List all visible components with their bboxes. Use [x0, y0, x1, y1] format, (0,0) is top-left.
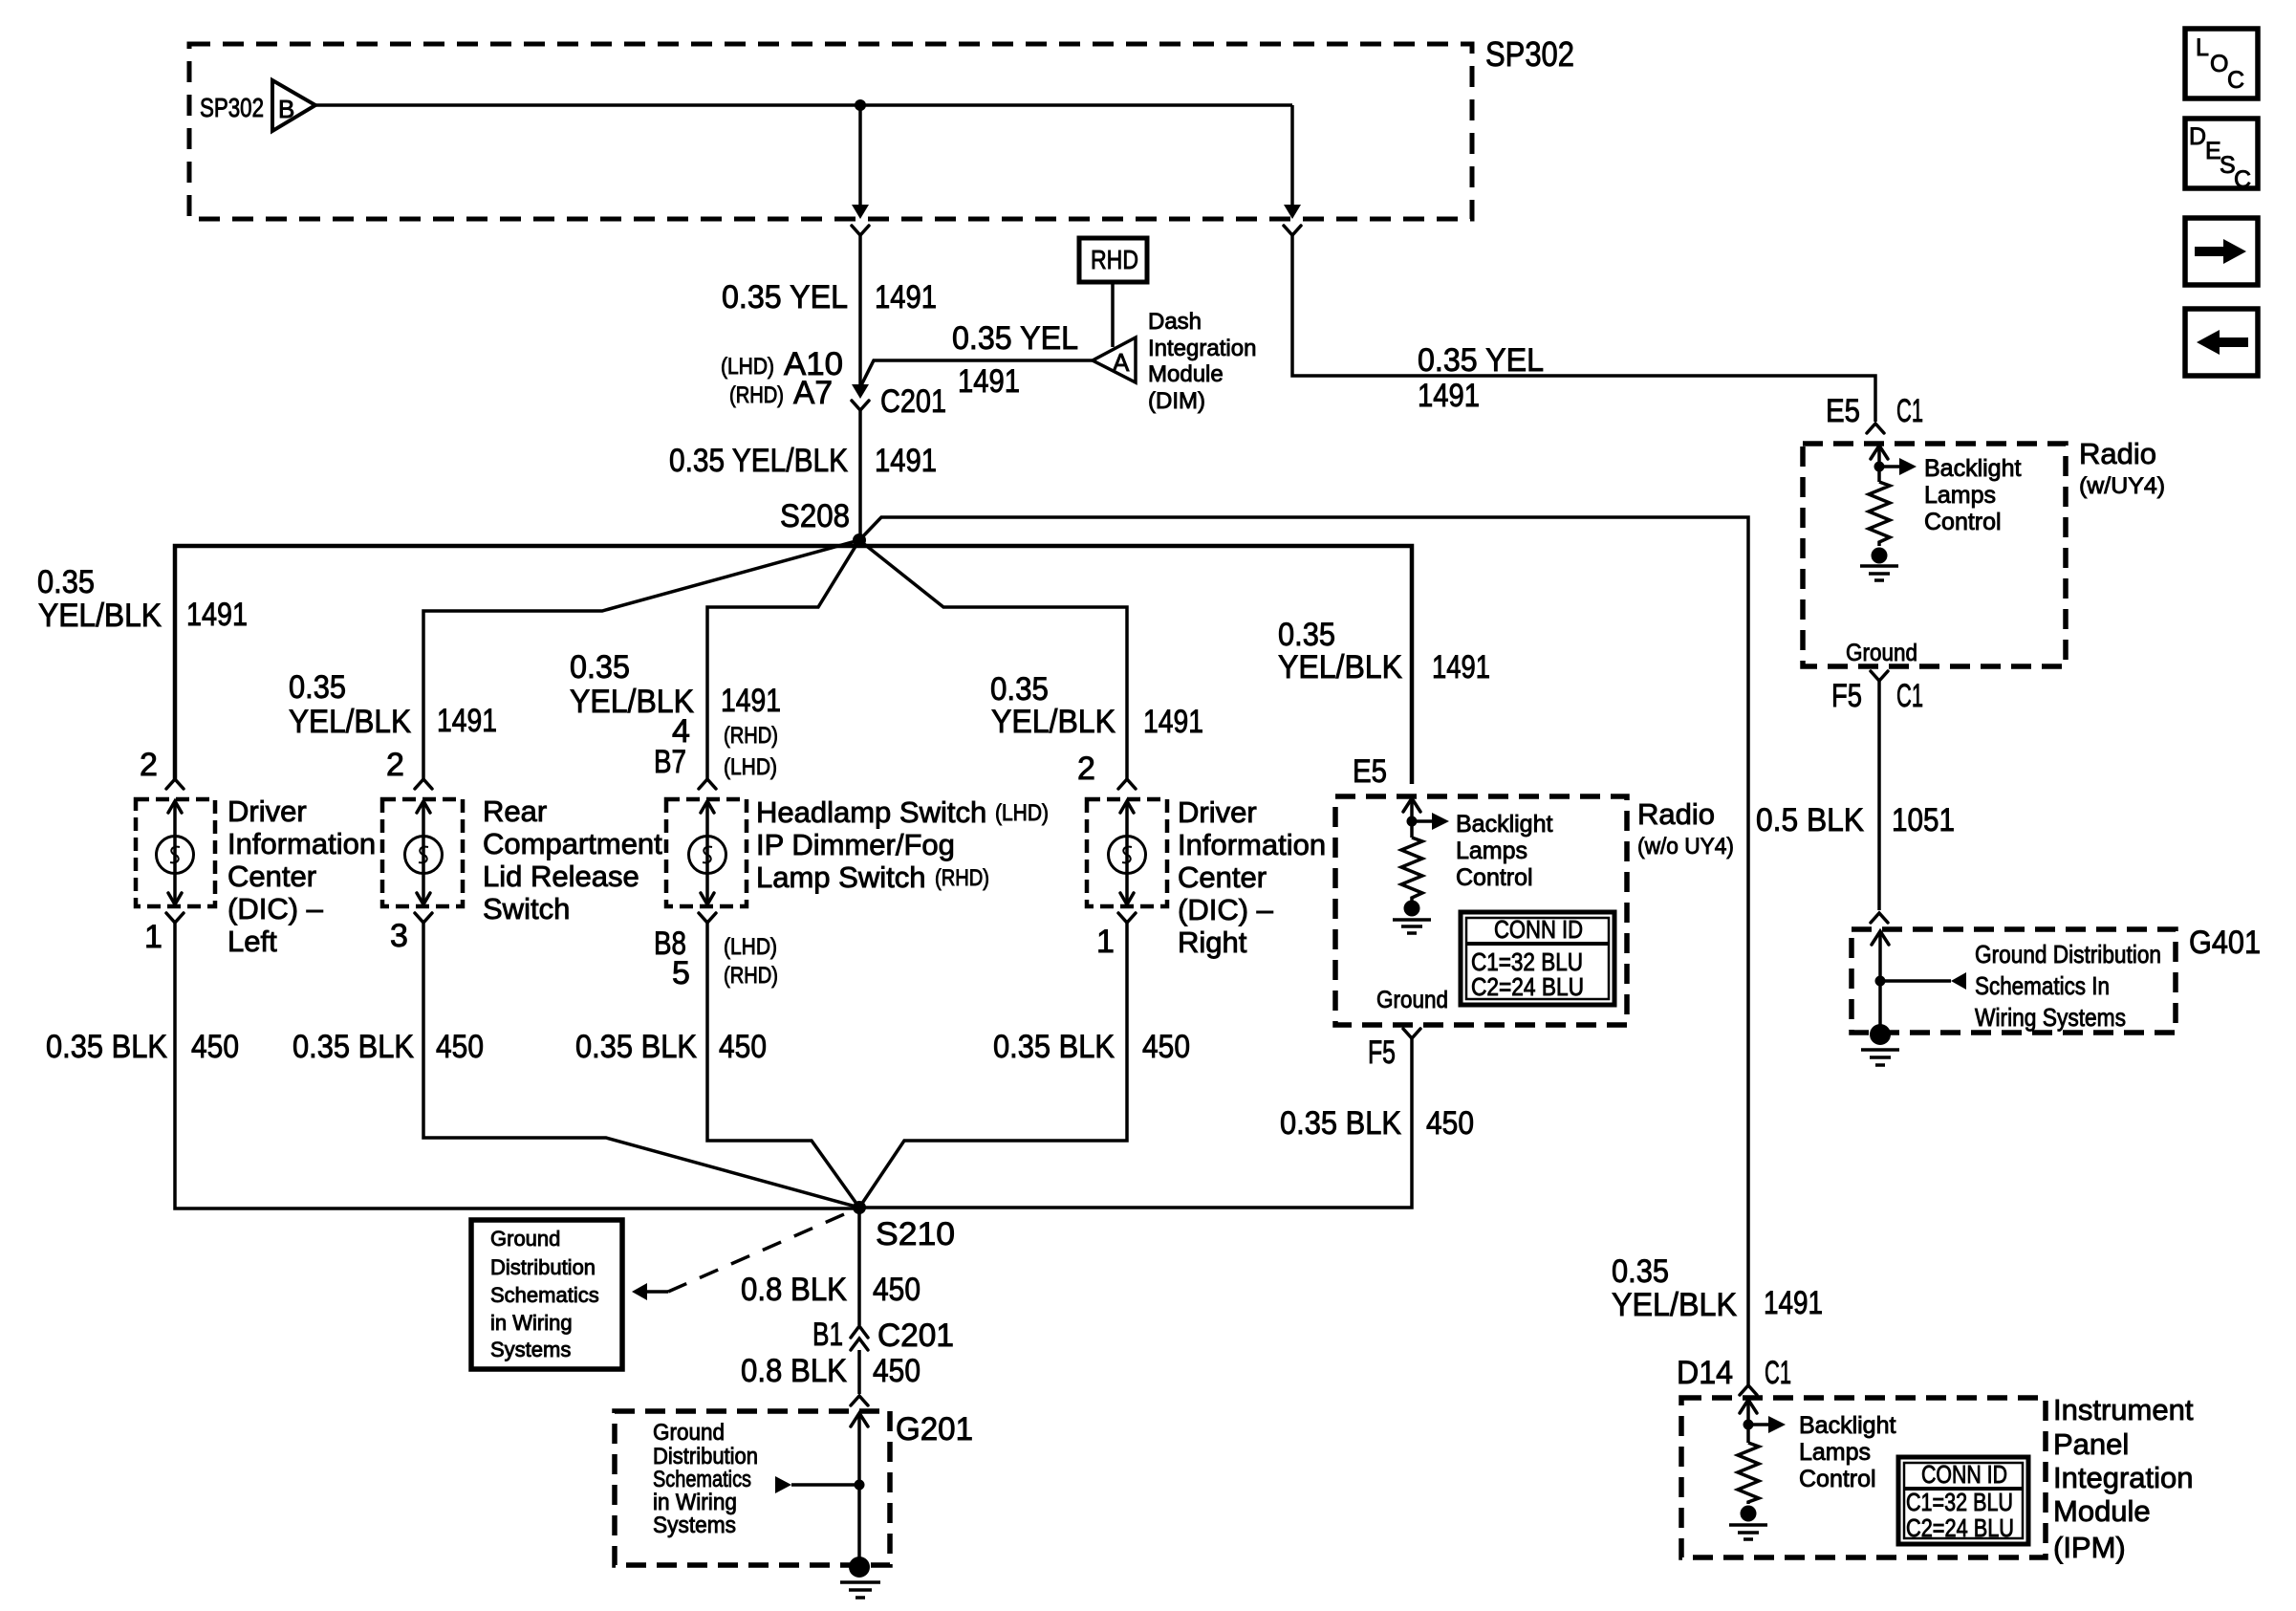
wire C201 to splice S208 [858, 410, 862, 538]
splice S208 node [853, 533, 866, 547]
wire S208 up-right diagonal to IPM feed [859, 517, 1748, 1385]
connector chevron at IPM D14 [1740, 1385, 1757, 1395]
connector C201 double chevron [851, 1326, 868, 1350]
component name Headlamp Switch / IP Dimmer/Fog Lamp Switch [756, 795, 1049, 894]
CONN ID header separator [1904, 1487, 2023, 1491]
connector chevron pin 1 [1118, 913, 1136, 923]
svg-text:(DIM): (DIM) [1148, 388, 1205, 414]
svg-text:450: 450 [873, 1272, 921, 1308]
Headlamp switch dashed box [666, 799, 747, 906]
splice pack SP302 dashed box [189, 44, 1472, 219]
label LOC (diagonal letters) [2196, 34, 2244, 94]
internal arrowhead to Backlight Lamps Control [1432, 813, 1449, 830]
svg-text:(RHD): (RHD) [724, 963, 778, 989]
left-arrow legend box [2185, 309, 2258, 376]
internal ground ball [1404, 901, 1420, 917]
up arrowhead [1740, 1400, 1757, 1413]
internal branch wire from reference arrow [791, 1483, 859, 1487]
internal wire with up arrow [1877, 446, 1881, 482]
svg-text:0.5 BLK: 0.5 BLK [1756, 802, 1864, 838]
G201 ground ball [849, 1557, 870, 1578]
wire S210 down to C201 [857, 1208, 861, 1325]
reference arrowhead (points left) [632, 1283, 647, 1300]
reference arrowhead (points left) [1951, 972, 1966, 990]
svg-text:(w/UY4): (w/UY4) [2079, 473, 2165, 499]
svg-text:G401: G401 [2189, 925, 2261, 961]
dashed reference line to S210 [668, 1208, 859, 1292]
svg-text:Lamps: Lamps [1924, 482, 1996, 509]
wire S208 horizontal left to DIC-Left [175, 546, 859, 779]
svg-text:Ground: Ground [490, 1227, 560, 1251]
connector chevron pin B7 [699, 779, 716, 789]
connector chevron at Radio w/o UY4 F5 [1403, 1029, 1420, 1038]
DIC-Right dashed box [1087, 799, 1167, 906]
wire main vertical from SP302 down to box edge [858, 105, 862, 207]
wire S208 to Rear Compartment Lid Release Switch [423, 540, 859, 779]
svg-text:0.35: 0.35 [1612, 1253, 1669, 1290]
svg-text:0.35 BLK: 0.35 BLK [292, 1029, 414, 1065]
svg-text:1491: 1491 [186, 597, 248, 633]
connector chevron pin 2 [166, 779, 184, 789]
CONN ID table box [1898, 1457, 2028, 1544]
right-arrow legend box [2185, 218, 2258, 285]
svg-text:0.35: 0.35 [1278, 617, 1335, 653]
svg-text:0.8 BLK: 0.8 BLK [741, 1353, 847, 1389]
internal junction node [1407, 816, 1418, 827]
svg-text:0.35 YEL: 0.35 YEL [1418, 342, 1544, 379]
svg-text:Systems: Systems [490, 1338, 571, 1361]
G401 dashed box [1852, 929, 2176, 1033]
svg-text:Ground: Ground [1376, 987, 1448, 1013]
svg-text:Systems: Systems [653, 1513, 736, 1538]
svg-text:Information: Information [227, 827, 376, 860]
component name Dash Integration Module (DIM) [1148, 309, 1256, 414]
svg-text:Module: Module [2053, 1494, 2151, 1528]
svg-text:C201: C201 [880, 383, 946, 420]
svg-text:1491: 1491 [875, 443, 937, 479]
svg-text:Driver: Driver [227, 795, 307, 828]
internal wire [422, 801, 425, 904]
svg-text:(DIC) –: (DIC) – [227, 892, 324, 925]
internal junction node [855, 1480, 865, 1491]
svg-text:IP Dimmer/Fog: IP Dimmer/Fog [756, 828, 955, 861]
wire DIC-Left pin1 to S210 [175, 923, 859, 1208]
lamp filament squiggle [419, 847, 428, 863]
internal wire with up arrow [857, 1413, 861, 1562]
svg-text:2: 2 [140, 747, 158, 783]
svg-text:(RHD): (RHD) [935, 865, 989, 891]
svg-text:Module: Module [1148, 361, 1224, 387]
connector chevron pin B8 [699, 913, 716, 923]
wire F5 to S210 [859, 1038, 1412, 1208]
lamp filament squiggle [1122, 847, 1132, 863]
connector chevron at Radio w/UY4 F5 [1871, 671, 1888, 681]
svg-text:Schematics: Schematics [490, 1283, 599, 1307]
svg-text:F5: F5 [1368, 1034, 1396, 1071]
CONN ID inner border [1904, 1463, 2023, 1538]
svg-text:Left: Left [227, 925, 277, 958]
up arrowhead [1120, 801, 1134, 813]
svg-text:YEL/BLK: YEL/BLK [1278, 649, 1402, 686]
svg-text:Backlight: Backlight [1924, 455, 2021, 482]
component name Rear Compartment Lid Release Switch [483, 795, 662, 925]
svg-text:C2=24 BLU: C2=24 BLU [1471, 972, 1584, 1001]
svg-text:Right: Right [1178, 925, 1247, 959]
svg-text:(LHD): (LHD) [995, 800, 1049, 826]
DESC legend box [2185, 119, 2258, 188]
svg-text:1051: 1051 [1892, 802, 1955, 838]
svg-text:0.35 BLK: 0.35 BLK [46, 1029, 167, 1065]
svg-text:Lamps: Lamps [1456, 838, 1527, 864]
internal branch wire [1412, 819, 1433, 823]
svg-text:Schematics In: Schematics In [1975, 971, 2110, 1000]
component name Driver Information Center (DIC) - Right [1178, 795, 1326, 959]
lamp circle symbol [689, 837, 726, 874]
terminal triangle A of DIM [1093, 337, 1136, 382]
svg-text:450: 450 [436, 1029, 484, 1065]
svg-text:1491: 1491 [1418, 378, 1480, 414]
svg-text:C1: C1 [1896, 393, 1923, 429]
up arrowhead [417, 801, 430, 813]
connector C201 arrowhead [852, 384, 869, 399]
svg-text:0.35: 0.35 [37, 564, 95, 600]
svg-text:YEL/BLK: YEL/BLK [1612, 1287, 1737, 1323]
svg-text:1491: 1491 [1764, 1285, 1823, 1321]
svg-text:Backlight: Backlight [1799, 1412, 1895, 1439]
svg-text:E5: E5 [1353, 753, 1387, 790]
svg-text:CONN ID: CONN ID [1921, 1460, 2007, 1489]
svg-text:Control: Control [1456, 864, 1533, 891]
svg-text:2: 2 [386, 747, 404, 783]
connector chevron pin 2 [415, 779, 432, 789]
svg-text:1491: 1491 [1432, 649, 1490, 686]
connector C201 chevron [852, 401, 869, 410]
internal junction node [1875, 976, 1886, 987]
svg-text:0.8 BLK: 0.8 BLK [741, 1272, 847, 1308]
svg-text:1: 1 [1096, 924, 1115, 960]
svg-text:C1: C1 [1765, 1355, 1791, 1391]
svg-text:S210: S210 [876, 1216, 955, 1252]
resistor (backlight dimming element) [1738, 1443, 1759, 1504]
svg-text:Integration: Integration [2053, 1461, 2194, 1494]
svg-text:Headlamp Switch: Headlamp Switch [756, 795, 986, 829]
wire from SP302 to connector C201 [858, 235, 862, 386]
svg-text:0.35 YEL: 0.35 YEL [722, 279, 848, 316]
IPM dashed box [1681, 1398, 2046, 1557]
svg-text:Information: Information [1178, 828, 1326, 861]
up arrowhead [168, 801, 182, 813]
ground symbol [840, 1582, 880, 1598]
connector chevron below SP302 box right [1284, 226, 1301, 235]
Radio w/UY4 dashed box [1803, 444, 2066, 666]
internal wire [173, 801, 177, 904]
svg-text:O: O [2210, 51, 2228, 77]
svg-text:0.35 YEL/BLK: 0.35 YEL/BLK [669, 443, 848, 479]
svg-text:0.35 YEL: 0.35 YEL [952, 320, 1078, 357]
ground symbol [1393, 920, 1431, 933]
resistor (backlight dimming element) [1869, 482, 1890, 546]
svg-text:1491: 1491 [721, 683, 781, 719]
svg-text:1491: 1491 [958, 363, 1020, 400]
svg-text:C1: C1 [1896, 678, 1923, 714]
down arrowhead [417, 893, 430, 904]
svg-text:0.35: 0.35 [570, 649, 630, 686]
internal wire with up arrow [1878, 931, 1882, 1027]
svg-text:B7: B7 [654, 744, 686, 780]
connector chevron pin 1 [166, 913, 184, 923]
wire S208 to Headlamp Switch [707, 540, 859, 779]
svg-text:CONN ID: CONN ID [1494, 915, 1583, 944]
svg-text:(RHD): (RHD) [729, 382, 784, 408]
resistor (backlight dimming element) [1401, 838, 1422, 901]
svg-text:Lid Release: Lid Release [483, 860, 639, 893]
G201 dashed box [615, 1411, 890, 1565]
internal branch wire to reference arrow [1880, 979, 1951, 983]
up arrowhead [1871, 446, 1888, 459]
svg-text:Rear: Rear [483, 795, 547, 828]
svg-text:Ground: Ground [653, 1420, 725, 1446]
svg-text:(LHD): (LHD) [721, 354, 774, 380]
svg-text:C2=24 BLU: C2=24 BLU [1906, 1513, 2014, 1542]
wire S208 horizontal right to Radio w/o UY4 [859, 546, 1412, 784]
wire Rear Compartment pin3 to S210 [423, 923, 859, 1208]
down arrowhead [1120, 893, 1134, 904]
internal ground ball [1872, 548, 1888, 564]
svg-text:E5: E5 [1826, 393, 1860, 429]
svg-text:YEL/BLK: YEL/BLK [289, 704, 411, 740]
svg-text:L: L [2196, 34, 2209, 61]
CONN ID table box [1461, 912, 1614, 1005]
svg-text:Center: Center [1178, 860, 1267, 894]
svg-text:3: 3 [390, 918, 408, 954]
up arrowhead [701, 801, 714, 813]
RHD tag box [1079, 238, 1147, 282]
svg-text:Control: Control [1924, 509, 2002, 535]
svg-text:YEL/BLK: YEL/BLK [991, 704, 1116, 740]
lamp circle symbol [405, 837, 443, 874]
connector chevron below SP302 box [852, 226, 869, 235]
svg-text:D: D [2189, 123, 2206, 150]
svg-text:Radio: Radio [1637, 797, 1715, 831]
svg-text:450: 450 [1426, 1105, 1474, 1142]
reference arrow tail [647, 1290, 668, 1294]
connector chevron at G401 entry [1871, 913, 1888, 923]
svg-text:0.35 BLK: 0.35 BLK [575, 1029, 697, 1065]
svg-text:Instrument: Instrument [2053, 1393, 2194, 1426]
svg-text:0.35 BLK: 0.35 BLK [993, 1029, 1115, 1065]
label Ground Distribution Schematics in Wiring Systems [490, 1227, 599, 1361]
wire C201 to G201 [857, 1350, 861, 1394]
terminal triangle B of SP302 [272, 80, 315, 131]
lamp circle symbol [157, 837, 194, 874]
Radio w/o UY4 dashed box [1335, 796, 1627, 1025]
svg-text:C: C [2234, 166, 2251, 193]
connector chevron at G201 entry [851, 1396, 868, 1405]
CONN ID inner border [1466, 918, 1609, 999]
internal arrowhead to Backlight Lamps Control [1899, 458, 1917, 475]
svg-text:G201: G201 [896, 1411, 973, 1448]
svg-text:5: 5 [672, 955, 690, 991]
svg-text:(LHD): (LHD) [724, 754, 777, 780]
internal junction node [1744, 1420, 1754, 1430]
svg-text:Control: Control [1799, 1466, 1876, 1492]
svg-text:C201: C201 [877, 1317, 954, 1354]
svg-text:450: 450 [1142, 1029, 1190, 1065]
svg-text:0.35: 0.35 [289, 669, 346, 706]
svg-text:1491: 1491 [437, 703, 497, 739]
svg-text:C: C [2227, 67, 2244, 94]
connector chevron at Radio w/UY4 E5 [1867, 424, 1884, 433]
wire SP302 right vertical to box edge [1290, 105, 1294, 207]
svg-text:(w/o UY4): (w/o UY4) [1637, 834, 1734, 860]
wire DIC-Right pin1 to S210 [859, 923, 1127, 1208]
wire from SP302 terminal B to right branch [315, 103, 1292, 107]
svg-text:(DIC) –: (DIC) – [1178, 893, 1274, 926]
G401 ground ball [1870, 1024, 1891, 1045]
svg-text:Center: Center [227, 860, 316, 893]
svg-text:(LHD): (LHD) [724, 934, 777, 960]
wire F5 to G401 [1877, 681, 1881, 910]
CONN ID header separator [1466, 942, 1609, 946]
internal wire [1125, 801, 1129, 904]
internal arrowhead to Backlight Lamps Control [1768, 1416, 1786, 1433]
Rear Compartment switch dashed box [382, 799, 463, 906]
svg-text:Ground Distribution: Ground Distribution [1975, 940, 2161, 969]
up arrowhead [851, 1413, 868, 1426]
component name Instrument Panel Integration Module (IPM) [2053, 1393, 2194, 1564]
svg-text:Driver: Driver [1178, 795, 1257, 829]
label Backlight Lamps Control [1924, 455, 2021, 535]
internal ground ball [1741, 1506, 1757, 1522]
svg-text:0.35 BLK: 0.35 BLK [1280, 1105, 1401, 1142]
up arrowhead [1403, 798, 1420, 812]
internal junction node [1874, 462, 1885, 472]
ground symbol [1861, 1050, 1899, 1065]
svg-text:Integration: Integration [1148, 336, 1256, 361]
reference box Ground Distribution Schematics in Wiring Systems [471, 1220, 622, 1369]
svg-text:F5: F5 [1831, 678, 1862, 714]
right arrow symbol [2195, 239, 2246, 264]
svg-text:Distribution: Distribution [653, 1444, 758, 1469]
wire to Radio w/UY4 [1292, 235, 1875, 422]
junction node on SP302 wire [855, 99, 866, 111]
svg-text:Panel: Panel [2053, 1427, 2129, 1461]
lamp filament squiggle [170, 847, 180, 863]
svg-text:1491: 1491 [1143, 704, 1203, 740]
svg-text:Compartment: Compartment [483, 827, 662, 860]
svg-text:Ground: Ground [1846, 640, 1917, 666]
svg-text:SP302: SP302 [200, 93, 264, 122]
svg-text:B: B [278, 95, 294, 123]
down arrowhead [168, 893, 182, 904]
ground symbol [1860, 566, 1898, 580]
lamp circle symbol [1109, 837, 1146, 874]
wire S208 to DIC-Right [859, 540, 1127, 779]
label DESC (diagonal letters) [2189, 123, 2251, 193]
connector chevron pin 2 [1118, 779, 1136, 789]
LOC legend box [2185, 29, 2258, 98]
ground symbol [1729, 1525, 1767, 1539]
internal branch wire [1748, 1423, 1769, 1426]
DIC-Left dashed box [136, 799, 215, 906]
svg-text:(IPM): (IPM) [2053, 1531, 2126, 1564]
svg-text:Distribution: Distribution [490, 1255, 596, 1279]
svg-text:450: 450 [873, 1353, 921, 1389]
component name Driver Information Center (DIC) - Left [227, 795, 376, 958]
svg-text:450: 450 [191, 1029, 239, 1065]
label Ground Distribution Schematics in Wiring Systems [653, 1420, 758, 1538]
down arrowhead [701, 893, 714, 904]
svg-text:Lamp Switch: Lamp Switch [756, 860, 925, 894]
label Backlight Lamps Control [1456, 811, 1552, 891]
svg-text:in Wiring: in Wiring [490, 1311, 573, 1335]
arrowhead at SP302 box exit [852, 205, 869, 219]
arrowhead at SP302 box exit right [1284, 205, 1301, 219]
label Ground Distribution Schematics In Wiring Systems [1975, 940, 2161, 1032]
svg-text:A7: A7 [793, 375, 833, 411]
svg-text:Switch: Switch [483, 892, 570, 925]
lamp filament squiggle [703, 847, 712, 863]
splice S210 node [853, 1201, 866, 1214]
svg-text:RHD: RHD [1091, 245, 1138, 274]
connector chevron pin 3 [415, 913, 432, 923]
svg-text:S208: S208 [780, 498, 850, 534]
internal wire [705, 801, 709, 904]
svg-text:D14: D14 [1677, 1355, 1733, 1391]
svg-text:YEL/BLK: YEL/BLK [38, 598, 162, 634]
wire branch to DIM triangle [861, 360, 1093, 385]
internal branch wire [1879, 465, 1900, 468]
svg-text:SP302: SP302 [1485, 34, 1574, 74]
left arrow symbol [2197, 330, 2248, 355]
reference arrowhead (points right) [775, 1476, 791, 1493]
svg-text:2: 2 [1077, 751, 1095, 787]
svg-text:450: 450 [719, 1029, 767, 1065]
svg-text:1: 1 [144, 919, 162, 955]
svg-text:C1=32 BLU: C1=32 BLU [1906, 1488, 2013, 1516]
svg-text:Radio: Radio [2079, 437, 2156, 470]
label Backlight Lamps Control [1799, 1412, 1895, 1492]
svg-text:Backlight: Backlight [1456, 811, 1552, 838]
svg-text:Schematics: Schematics [653, 1467, 751, 1492]
internal wire with up arrow [1410, 798, 1414, 838]
svg-text:Wiring Systems: Wiring Systems [1975, 1003, 2126, 1032]
svg-text:Lamps: Lamps [1799, 1439, 1871, 1466]
wire Headlamp pin B8 to S210 [707, 923, 859, 1208]
svg-text:0.35: 0.35 [990, 671, 1049, 708]
svg-text:A: A [1113, 348, 1130, 377]
wire RHD box to triangle A [1111, 282, 1115, 347]
svg-text:B1: B1 [812, 1317, 843, 1353]
svg-text:(RHD): (RHD) [724, 723, 778, 749]
svg-text:Dash: Dash [1148, 309, 1202, 335]
svg-text:1491: 1491 [875, 279, 937, 316]
internal wire with up arrow [1746, 1400, 1750, 1443]
up arrowhead [1872, 931, 1889, 945]
svg-text:in Wiring: in Wiring [653, 1490, 737, 1515]
